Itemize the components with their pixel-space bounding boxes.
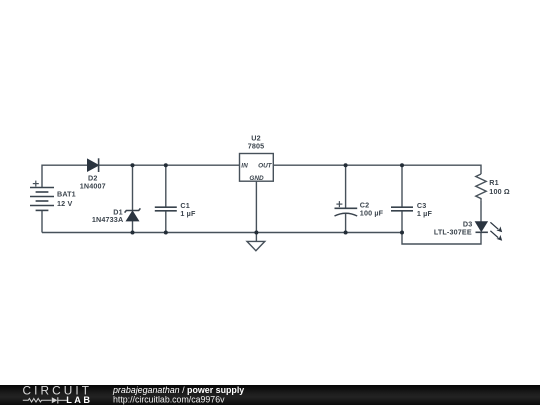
label BAT1 value — [57, 190, 76, 208]
node C3 bottom — [400, 231, 404, 235]
ground — [247, 241, 265, 250]
capacitor C2 polarized — [335, 208, 358, 216]
LED D3 light arrows — [490, 222, 502, 240]
svg-text:prabajeganathan / power supply: prabajeganathan / power supply — [112, 385, 244, 395]
svg-text:IN: IN — [241, 162, 248, 169]
wire U2 OUT to R1 top corner — [273, 165, 481, 174]
svg-text:100 µF: 100 µF — [360, 209, 384, 218]
wire D2 cathode to U2 IN — [99, 164, 240, 166]
label D2 value — [80, 173, 106, 190]
footer title text — [112, 385, 244, 405]
node C2 bottom — [344, 231, 348, 235]
node ground junction — [254, 231, 258, 235]
wire D1 top lead — [132, 165, 134, 210]
battery plus sign — [33, 181, 39, 187]
wire R1 bottom lead to D3 — [480, 200, 482, 221]
wire C1 top lead — [165, 165, 167, 207]
battery BAT1 — [30, 188, 54, 211]
label C1 value — [180, 201, 196, 218]
svg-text:7805: 7805 — [248, 141, 265, 150]
C2 plus sign — [336, 201, 342, 207]
svg-text:1 µF: 1 µF — [180, 209, 196, 218]
svg-text:12 V: 12 V — [57, 199, 72, 208]
svg-text:GND: GND — [249, 175, 264, 182]
LED D3 — [476, 222, 488, 233]
node C2 top — [344, 163, 348, 167]
svg-text:LTL-307EE: LTL-307EE — [434, 227, 472, 236]
wire D3 cathode return to bottom rail — [402, 232, 481, 244]
diode D2 — [88, 158, 99, 172]
capacitor C3 — [391, 207, 413, 211]
wire battery bottom to bottom rail — [41, 210, 43, 232]
op-amp U2 regulator box — [240, 154, 274, 183]
node C1 top — [164, 163, 168, 167]
label C3 value — [417, 201, 433, 218]
node C3 top — [400, 163, 404, 167]
wire C2 bottom lead — [345, 213, 347, 232]
label U2 value — [248, 134, 265, 151]
wire C1 bottom lead — [165, 211, 167, 233]
svg-text:OUT: OUT — [258, 163, 273, 170]
CircuitLab logo schematic glyph — [23, 397, 67, 403]
svg-text:LAB: LAB — [66, 395, 92, 405]
wire C3 bottom lead — [401, 211, 403, 233]
wire D1 bottom lead — [132, 221, 134, 233]
svg-text:BAT1: BAT1 — [57, 190, 76, 199]
wire C2 top lead — [345, 165, 347, 208]
node C1 bottom — [164, 231, 168, 235]
CircuitLab logo wordmark — [23, 384, 93, 405]
svg-text:http://circuitlab.com/ca9976v: http://circuitlab.com/ca9976v — [113, 395, 225, 405]
wire battery top to D2 anode — [42, 165, 88, 187]
wire bottom rail — [42, 232, 402, 234]
svg-text:R1: R1 — [489, 178, 499, 187]
footer bar — [0, 385, 540, 405]
label C2 value — [360, 201, 384, 218]
label D3 value — [434, 219, 473, 236]
label R1 value — [489, 178, 510, 196]
resistor R1 — [476, 174, 486, 200]
svg-text:100 Ω: 100 Ω — [489, 187, 510, 196]
wire C3 top lead — [401, 165, 403, 207]
zener diode D1 — [125, 208, 141, 221]
svg-text:1N4007: 1N4007 — [80, 181, 106, 190]
wire U2 GND lead to ground — [255, 181, 257, 241]
svg-text:1 µF: 1 µF — [417, 209, 433, 218]
node D1 top — [131, 163, 135, 167]
capacitor C1 — [155, 207, 177, 211]
node D1 bottom — [131, 231, 135, 235]
label D1 value — [92, 207, 123, 224]
svg-text:1N4733A: 1N4733A — [92, 215, 123, 224]
